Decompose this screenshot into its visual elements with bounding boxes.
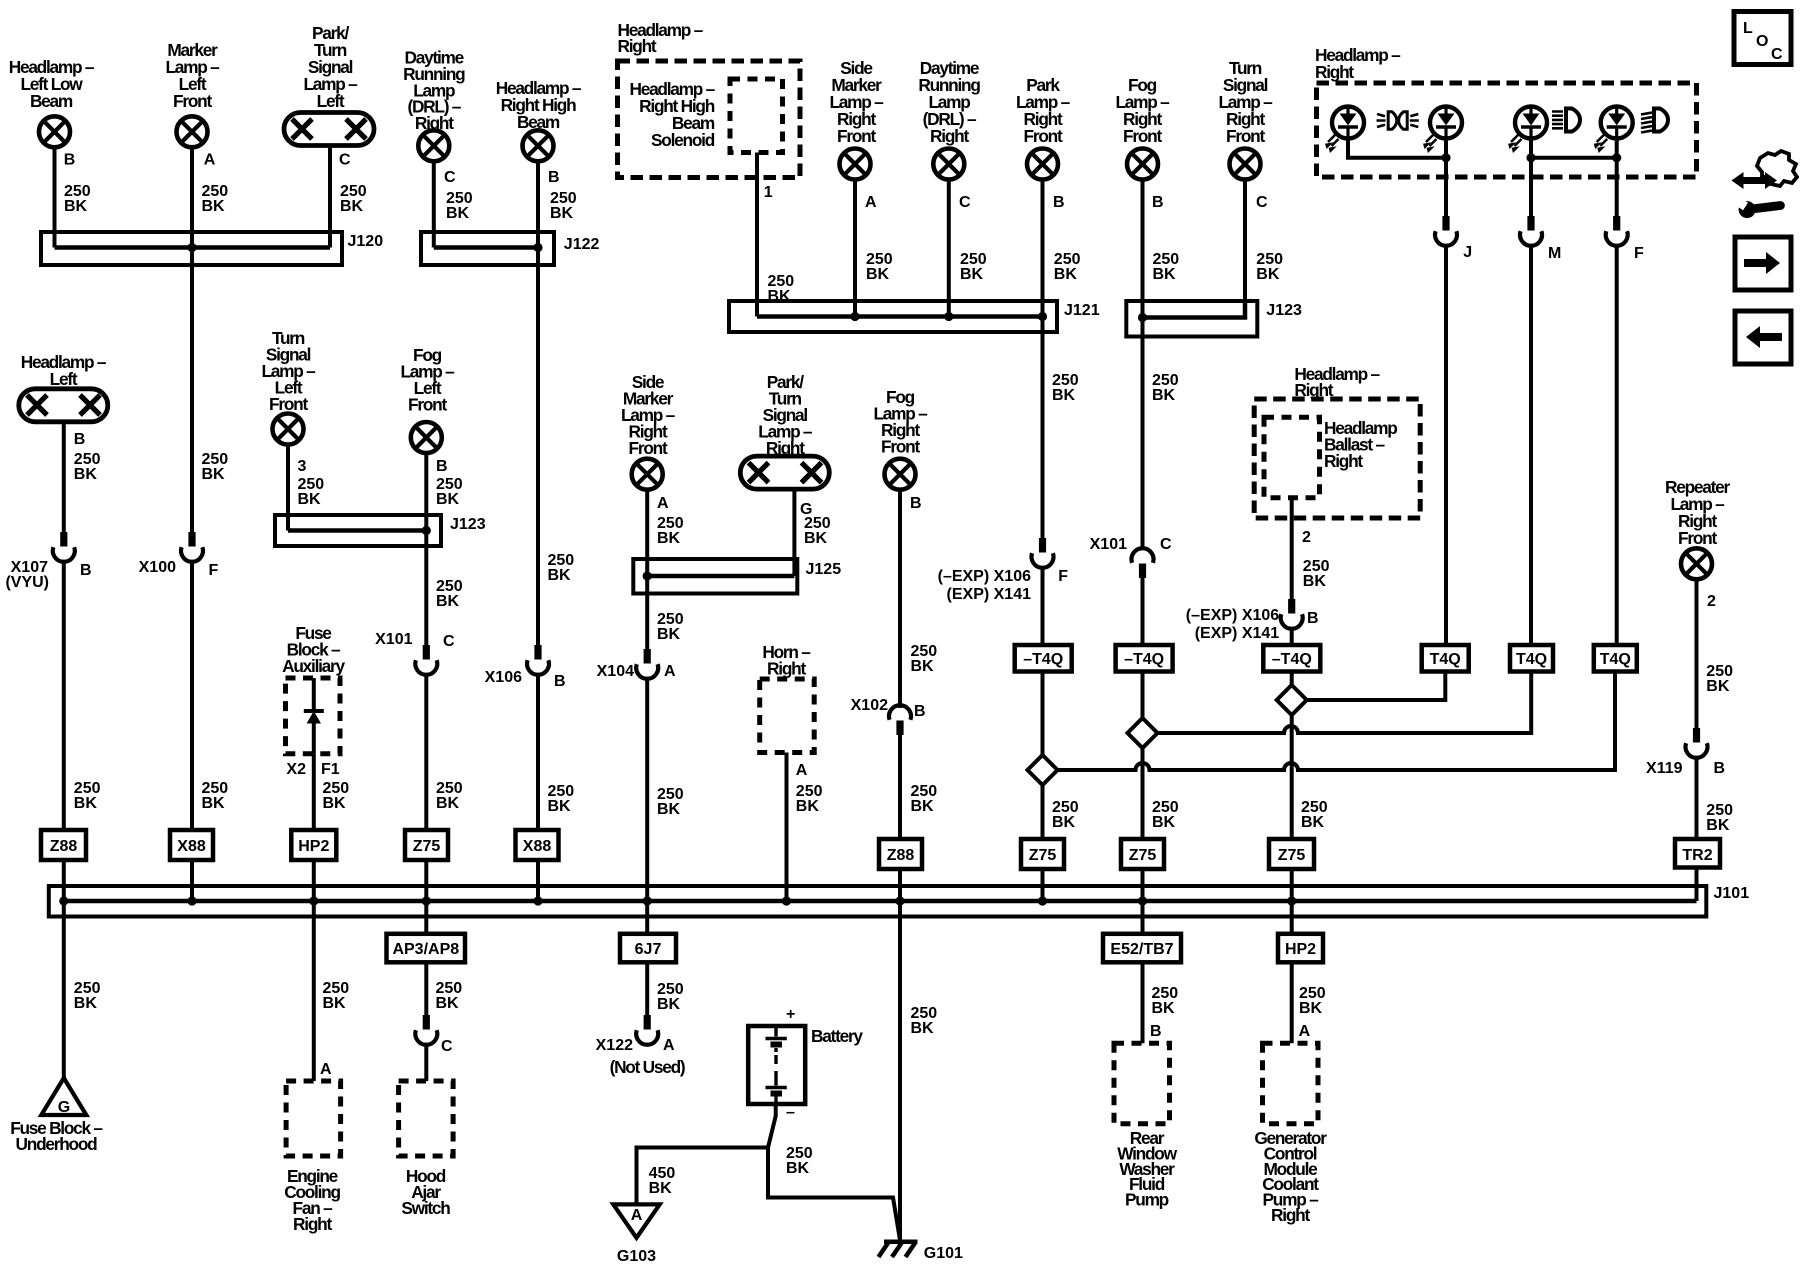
wire fog B through J123 to X101 (424, 453, 428, 646)
component Horn - Right (760, 642, 815, 753)
wire Z75 through J101 to E52/TB7 (1141, 869, 1145, 934)
svg-text:C: C (1160, 536, 1172, 553)
svg-text:250BK: 250BK (64, 183, 91, 215)
svg-text:X100: X100 (139, 559, 176, 576)
lamp Park/Turn Signal Lamp - Left (284, 23, 374, 146)
wire connector to hood ajar switch (424, 1045, 428, 1081)
svg-text:X104: X104 (597, 663, 634, 680)
svg-text:B: B (74, 431, 86, 448)
svg-text:A: A (1299, 1023, 1311, 1040)
LED lamp 4 (flash to pass) (1595, 107, 1633, 152)
svg-text:(EXP) X141: (EXP) X141 (947, 586, 1032, 603)
svg-text:250BK: 250BK (911, 1005, 938, 1037)
connector F (1606, 216, 1628, 246)
component Engine Cooling Fan - Right (284, 1081, 340, 1234)
wire LED3 to connector M (1531, 139, 1617, 219)
wire LED1+LED2 to connector J (1348, 139, 1446, 219)
svg-text:2: 2 (1302, 529, 1311, 546)
wire X106 B to -T4Q (1290, 629, 1294, 645)
svg-text:B: B (910, 495, 922, 512)
wire fog B to X102 (898, 490, 902, 708)
svg-text:J123: J123 (1266, 302, 1302, 319)
svg-text:250BK: 250BK (550, 190, 577, 222)
svg-text:HP2: HP2 (298, 838, 329, 855)
connector box -T4Q (1) (1015, 645, 1072, 672)
svg-text:Z75: Z75 (413, 838, 441, 855)
lamp Turn Signal Lamp - Right Front (1218, 58, 1273, 180)
connector X101 (left) (375, 631, 455, 675)
wire E52/TB7 to washer pump (1141, 962, 1145, 1043)
svg-text:AP3/AP8: AP3/AP8 (392, 941, 459, 958)
svg-text:(–EXP) X106: (–EXP) X106 (938, 568, 1031, 585)
wire DRL C to J122 (432, 161, 436, 247)
ground G Fuse Block - Underhood (10, 1078, 103, 1154)
svg-text:250BK: 250BK (911, 783, 938, 815)
connector box AP3/AP8 (387, 934, 466, 963)
connector box Z88 (41, 830, 86, 860)
wire repeater 2 to X119 (1695, 579, 1699, 730)
svg-text:3: 3 (298, 458, 307, 475)
svg-text:HP2: HP2 (1285, 941, 1316, 958)
wire park/turn C to J120 (328, 146, 332, 248)
component Generator Control Module Coolant Pump - Right (1254, 1043, 1327, 1225)
svg-text:(–EXP) X106: (–EXP) X106 (1186, 607, 1279, 624)
lamp Side Marker Lamp - Right Front (center) (621, 372, 676, 490)
wire 6J7 to X122 (645, 962, 649, 1016)
lamp Park/Turn Signal Lamp - Right (dual) (740, 372, 829, 489)
svg-text:A: A (796, 762, 808, 779)
connector box Z88 (2) (879, 839, 922, 869)
icon beam slanted lines (1641, 109, 1668, 133)
svg-text:250BK: 250BK (657, 981, 684, 1013)
svg-text:250BK: 250BK (796, 783, 823, 815)
svg-text:B: B (436, 458, 448, 475)
connector box HP2 (2) (1278, 934, 1323, 963)
splice pack J125 (633, 559, 841, 594)
wire turn signal 3 to J123 (286, 445, 290, 531)
icon low beam / park (1377, 112, 1419, 130)
lamp Daytime Running Lamp (DRL) - Right (403, 48, 465, 162)
svg-text:B: B (548, 169, 560, 186)
wire splice D3 down to Z75 (1290, 715, 1294, 839)
wire X101 to -T4Q (1141, 578, 1145, 645)
wire J123 to X101 C (1141, 334, 1145, 549)
wire high beam B through J122 down to X106 (536, 161, 540, 646)
svg-text:–: – (786, 1104, 795, 1121)
wire solenoid pin 1 to J121 (755, 153, 759, 317)
connector box Z75 (3) (1269, 839, 1314, 869)
svg-text:250BK: 250BK (323, 980, 350, 1012)
wire splice D2 to T4Q (right) with hop (1158, 672, 1532, 734)
lamp Turn Signal Lamp - Left Front (261, 328, 316, 445)
svg-text:J120: J120 (348, 233, 384, 250)
svg-text:J125: J125 (806, 561, 842, 578)
svg-text:A: A (320, 1061, 332, 1078)
connector box X88 (2) (516, 830, 559, 860)
svg-text:2: 2 (1707, 593, 1716, 610)
svg-text:–T4Q: –T4Q (1023, 651, 1063, 668)
svg-text:X88: X88 (177, 838, 206, 855)
connector box E52/TB7 (1103, 934, 1181, 963)
lamp Repeater Lamp - Right Front (1665, 477, 1730, 579)
wire splice D1 to T4Q (right) with hops (1058, 672, 1616, 771)
svg-text:250BK: 250BK (1052, 372, 1079, 404)
svg-text:B: B (1307, 610, 1319, 627)
connector box X88 (170, 830, 213, 860)
svg-text:250BK: 250BK (1152, 799, 1179, 831)
svg-text:Z88: Z88 (50, 838, 78, 855)
wire fuse block to HP2 (312, 754, 316, 830)
svg-text:250BK: 250BK (1303, 558, 1330, 590)
svg-text:250BK: 250BK (1256, 251, 1283, 283)
connector X104 (597, 649, 676, 680)
connector (-EXP) X106 / (EXP) X141 pin F (938, 538, 1069, 603)
svg-text:J121: J121 (1064, 302, 1100, 319)
svg-text:250BK: 250BK (657, 786, 684, 818)
lamp Fog Lamp - Right Front (1115, 75, 1170, 180)
wire Z75 to J101 (1041, 869, 1045, 901)
wire connector F to T4Q (1615, 246, 1619, 645)
battery (748, 1006, 863, 1121)
svg-text:T4Q: T4Q (1516, 651, 1547, 668)
wire splice D2 down to Z75 (1141, 748, 1145, 839)
wire -T4Q to splice diamond (1041, 672, 1045, 756)
svg-text:250BK: 250BK (911, 643, 938, 675)
svg-text:C: C (1256, 194, 1268, 211)
svg-text:B: B (554, 673, 566, 690)
lamp Marker Lamp - Left Front (165, 40, 220, 147)
svg-text:Z75: Z75 (1129, 847, 1157, 864)
icon harness/tool symbol (1732, 151, 1798, 219)
fuse element (304, 678, 324, 754)
wire connector J to T4Q (1444, 246, 1448, 645)
svg-text:Z75: Z75 (1029, 847, 1057, 864)
svg-text:250BK: 250BK (446, 190, 473, 222)
svg-text:450BK: 450BK (649, 1165, 676, 1197)
wire splice D1 down to Z75 (1041, 785, 1045, 839)
connector box Z75 (1) (1021, 839, 1064, 869)
svg-text:250BK: 250BK (1152, 372, 1179, 404)
svg-text:Battery: Battery (811, 1026, 863, 1046)
svg-text:250BK: 250BK (804, 515, 831, 547)
wire HP2 to generator pump (1290, 962, 1294, 1043)
svg-text:X122: X122 (596, 1037, 633, 1054)
ground G103 (613, 1204, 659, 1265)
wire X104 through J101 to 6J7 (645, 679, 649, 934)
svg-text:250BK: 250BK (74, 780, 101, 812)
wire park/turn G to J125 (792, 489, 796, 576)
svg-text:A: A (663, 1037, 675, 1054)
svg-text:F1: F1 (321, 761, 340, 778)
connector M (1520, 216, 1542, 246)
splice diamond D3 (1277, 685, 1307, 715)
splice pack J122 (421, 232, 599, 265)
wire fog lamp B through J123 (1141, 180, 1145, 337)
wire lamp B to J120 (53, 147, 57, 247)
connector box -T4Q (3) (1263, 645, 1320, 672)
splice pack J123 (right) (1126, 301, 1302, 337)
lamp Fog Lamp - Right Front (mid) (873, 387, 928, 490)
svg-text:B: B (1714, 760, 1726, 777)
svg-text:B: B (1053, 194, 1065, 211)
component Headlamp Ballast - Right (1254, 364, 1420, 518)
connector box T4Q (6) (1594, 645, 1637, 672)
icon high beam lines (1552, 109, 1580, 132)
svg-text:250BK: 250BK (1152, 985, 1179, 1017)
svg-text:G103: G103 (617, 1248, 656, 1265)
connector box TR2 (1675, 839, 1720, 868)
splice diamond D1 (1028, 755, 1058, 785)
svg-text:250BK: 250BK (202, 183, 229, 215)
svg-text:B: B (64, 152, 76, 169)
svg-text:250BK: 250BK (74, 451, 101, 483)
svg-text:B: B (80, 562, 92, 579)
svg-text:A: A (204, 152, 216, 169)
component Headlamp - Right (LED module) (1315, 45, 1697, 177)
wire -T4Q to splice diamond D2 (1141, 672, 1145, 719)
wire X119 to TR2 (1695, 758, 1699, 839)
svg-text:X119: X119 (1646, 760, 1683, 777)
lamp Daytime Running Lamp (DRL) - Right (front) (918, 58, 980, 180)
svg-text:250BK: 250BK (202, 451, 229, 483)
svg-text:250BK: 250BK (1301, 799, 1328, 831)
svg-text:E52/TB7: E52/TB7 (1110, 941, 1173, 958)
svg-text:250BK: 250BK (436, 476, 463, 508)
svg-text:A: A (865, 194, 877, 211)
LED lamp 3 (high beam) (1509, 107, 1547, 152)
svg-text:Right: Right (618, 36, 657, 56)
wire X101 to Z75 (424, 675, 428, 830)
icon arrow-left box (1735, 311, 1791, 364)
connector box Z75 (2) (1121, 839, 1164, 869)
wire J121 to X106 F (1041, 332, 1045, 539)
connector C (hood ajar) (415, 1015, 453, 1055)
connector box 6J7 (620, 934, 676, 963)
wire HP2 through J101 to engine cooling fan (312, 860, 316, 1081)
svg-text:Fuse Block –Underhood: Fuse Block –Underhood (10, 1118, 103, 1154)
svg-text:Right: Right (1315, 62, 1354, 82)
splice pack J123 (left) (275, 515, 486, 546)
wire turn signal C to J123 (1243, 180, 1247, 302)
connector box Z75 (405, 830, 448, 860)
svg-text:(EXP) X141: (EXP) X141 (1195, 625, 1280, 642)
svg-text:250BK: 250BK (866, 251, 893, 283)
svg-text:X88: X88 (523, 838, 552, 855)
svg-text:J123: J123 (450, 516, 486, 533)
svg-text:Z75: Z75 (1278, 847, 1306, 864)
connector X101 pin C (flipped) (1090, 536, 1172, 578)
svg-text:F: F (209, 562, 219, 579)
svg-text:X106: X106 (485, 669, 522, 686)
svg-text:250BK: 250BK (298, 476, 325, 508)
icon arrow-right box (1735, 237, 1791, 290)
component Hood Ajar Switch (399, 1081, 454, 1218)
component Rear Window Washer Fluid Pump (1114, 1043, 1178, 1209)
svg-text:250BK: 250BK (1052, 799, 1079, 831)
wire X106 to X88 (536, 675, 540, 830)
wire Z75 through J101 to HP2 (1290, 869, 1294, 934)
splice pack J121 (729, 301, 1100, 332)
svg-text:M: M (1548, 245, 1561, 262)
lamp Park Lamp - Right Front (1016, 75, 1071, 180)
wire side marker A through J125 to X104 (645, 490, 649, 650)
svg-text:X101: X101 (1090, 536, 1127, 553)
connector J (1435, 216, 1457, 246)
svg-text:G: G (58, 1099, 70, 1116)
icon LOC box (1734, 12, 1791, 65)
solenoid inner dashed box (730, 79, 783, 153)
svg-text:1: 1 (764, 184, 773, 201)
wire X102 to Z88 (898, 735, 902, 839)
wire Z75 through J101 to AP3/AP8 (424, 860, 428, 934)
lamp Side Marker Lamp - Right Front (829, 58, 884, 180)
wire Z88 to J101 and ground G (62, 860, 66, 1080)
svg-text:–T4Q: –T4Q (1124, 651, 1164, 668)
svg-text:J101: J101 (1714, 885, 1750, 902)
svg-text:250BK: 250BK (960, 251, 987, 283)
lamp Headlamp - Left Low Beam (9, 57, 95, 147)
svg-text:250BK: 250BK (74, 980, 101, 1012)
wire battery minus to grounds (768, 1104, 900, 1240)
component Headlamp - Right (solenoid housing) (618, 20, 801, 178)
svg-text:B: B (914, 703, 926, 720)
svg-text:250BK: 250BK (323, 780, 350, 812)
lamp Headlamp - Right High Beam (496, 78, 582, 161)
svg-text:250BK: 250BK (1706, 802, 1733, 834)
svg-text:O: O (1756, 33, 1768, 50)
LED lamp 2 (1424, 107, 1462, 152)
svg-text:C: C (443, 633, 455, 650)
svg-text:TR2: TR2 (1682, 847, 1712, 864)
svg-text:A: A (664, 663, 676, 680)
splice diamond D2 (1128, 718, 1158, 748)
wire Z88 through J101 down to G101 (898, 869, 902, 1240)
svg-text:X101: X101 (375, 631, 412, 648)
svg-text:Z88: Z88 (887, 847, 915, 864)
svg-text:J122: J122 (564, 236, 600, 253)
svg-text:(VYU): (VYU) (5, 574, 49, 591)
svg-text:250BK: 250BK (657, 611, 684, 643)
svg-text:C: C (1771, 46, 1783, 63)
svg-text:250BK: 250BK (1054, 251, 1081, 283)
wire X88 to J101 (536, 860, 540, 901)
svg-text:T4Q: T4Q (1430, 651, 1461, 668)
svg-text:X2: X2 (286, 761, 306, 778)
wire marker lamp through J120 (190, 147, 194, 532)
svg-text:C: C (444, 169, 456, 186)
wire AP3/AP8 to hood ajar switch (424, 962, 428, 1016)
wire headlamp left B to X107 (62, 422, 66, 533)
svg-text:A: A (657, 495, 669, 512)
svg-text:F: F (1058, 568, 1068, 585)
svg-text:C: C (441, 1038, 453, 1055)
svg-text:B: B (1150, 1023, 1162, 1040)
connector X119 (1646, 728, 1725, 777)
svg-text:250BK: 250BK (1299, 985, 1326, 1017)
splice pack J120 (41, 232, 383, 265)
svg-text:T4Q: T4Q (1600, 651, 1631, 668)
svg-text:+: + (786, 1006, 795, 1023)
connector box -T4Q (2) (1116, 645, 1173, 672)
svg-text:F: F (1634, 245, 1644, 262)
wire X106 F to -T4Q (1041, 568, 1045, 645)
svg-text:250BK: 250BK (548, 552, 575, 584)
connector (-EXP) X106 / (EXP) X141 pin B (1186, 599, 1319, 642)
wire DRL C to J121 (947, 180, 951, 317)
svg-text:250BK: 250BK (340, 183, 367, 215)
connector X122 (Not Used) (596, 1015, 685, 1077)
connector X107 (5, 532, 91, 591)
svg-text:250BK: 250BK (1153, 251, 1180, 283)
wire to G103 (637, 1148, 769, 1205)
ground G101 (chassis) (879, 1242, 964, 1262)
svg-text:250BK: 250BK (436, 578, 463, 610)
wire -T4Q to splice diamond D3 (1290, 672, 1294, 686)
wire X107 to Z88 (62, 562, 66, 830)
wire connector M to T4Q (1529, 246, 1533, 645)
svg-text:J: J (1463, 244, 1472, 261)
svg-text:250BK: 250BK (548, 783, 575, 815)
wire TR2 to J101 (1695, 868, 1699, 902)
wire splice D3 to T4Q (right) (1307, 672, 1446, 701)
lamp Fog Lamp - Left Front (400, 345, 455, 453)
svg-text:Horn –Right: Horn –Right (762, 642, 811, 679)
wire side marker A to J121 (853, 180, 857, 317)
svg-text:L: L (1743, 20, 1753, 37)
svg-text:(Not Used): (Not Used) (610, 1057, 685, 1077)
svg-text:–T4Q: –T4Q (1272, 651, 1312, 668)
svg-text:6J7: 6J7 (635, 941, 662, 958)
wire park lamp B through J121 (1041, 180, 1045, 335)
svg-text:250BK: 250BK (1706, 663, 1733, 695)
wire ballast pin 2 to X106/X141 B (1290, 498, 1294, 600)
svg-text:250BK: 250BK (436, 780, 463, 812)
component Fuse Block - Auxiliary (282, 623, 345, 754)
connector box T4Q (4) (1422, 645, 1469, 672)
wire X88 to J101 (190, 860, 194, 901)
wire X100 to X88 (190, 562, 194, 830)
svg-text:X102: X102 (851, 697, 888, 714)
lamp Headlamp - Left (dual) (19, 352, 108, 422)
connector X100 (139, 532, 219, 579)
svg-text:250BK: 250BK (202, 780, 229, 812)
svg-text:B: B (1152, 194, 1164, 211)
svg-text:250BK: 250BK (786, 1145, 813, 1177)
connector X102 (flipped) (851, 697, 926, 735)
svg-text:250BK: 250BK (657, 515, 684, 547)
svg-text:G101: G101 (924, 1245, 963, 1262)
connector box T4Q (5) (1510, 645, 1553, 672)
svg-text:C: C (339, 152, 351, 169)
LED lamp 1 (low beam left) (1326, 107, 1364, 152)
connector box HP2 (291, 830, 336, 860)
svg-text:A: A (631, 1207, 643, 1224)
svg-text:C: C (959, 194, 971, 211)
connector X106 (485, 645, 566, 690)
svg-text:250BK: 250BK (436, 980, 463, 1012)
wire horn A to J101 (785, 753, 789, 902)
